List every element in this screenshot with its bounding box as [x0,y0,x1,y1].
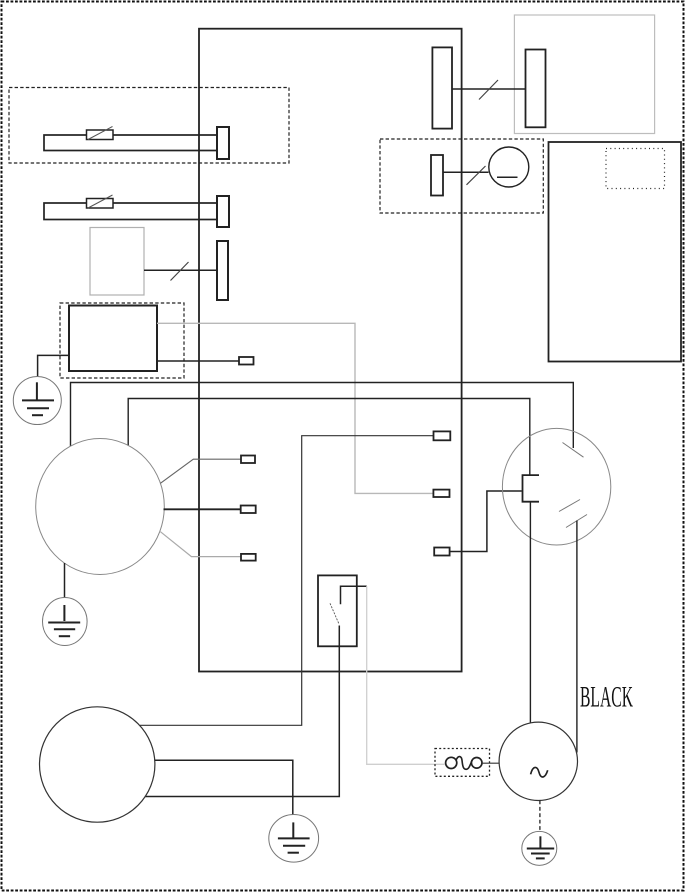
thermal fuse F2 on heater H2 [87,195,114,208]
wire switch S2 to motor M2 [145,626,339,797]
defrost heater H1 body [44,135,217,151]
connector R2 [433,490,449,497]
dotted nameplate box [606,149,665,189]
main harness rectangle outline [199,29,462,672]
connector L1 [241,456,255,464]
defrost heater H2 body [44,203,217,220]
control module box U1 [69,306,157,372]
terminal C [431,155,443,196]
terminal A [432,47,452,128]
connector L2 [241,506,256,514]
gray wire from U1 to connector R2 [157,323,434,493]
connector R3 [434,548,449,556]
dashed enclosure box (defrost heater H1 group) [9,88,289,164]
switch S2 blade [330,603,339,624]
wire net A: motor M1 to compressor switch [71,383,574,449]
switch slash S3 [479,80,498,100]
terminal T3 [217,241,228,300]
terminal B [526,50,546,128]
cabinet panel rectangle (right) [549,142,682,362]
wire net B: motor M1 to compressor bracket [128,399,530,476]
door switch box S2 [318,575,357,646]
connector C0 [239,357,254,365]
wire connector R3 to compressor bracket [450,491,522,552]
ground symbol E4 [522,831,557,865]
dashed wire AC source to ground E4 [539,801,541,832]
overload contact slash (top) [563,443,584,458]
connector R1 [434,431,451,440]
wire U1 to ground [38,355,69,377]
gray cabinet box (top right) [514,15,654,134]
wire thermostat to terminal T3 [144,269,217,271]
wire M1 to connector L2 [164,508,241,510]
dashed box around control module [60,303,184,378]
wire M3 bracket to AC source [529,502,531,724]
wire M3 to AC source (BLACK lead) [576,521,578,753]
ground symbol E3 [269,815,319,863]
thermal fuse F1 on heater H1 [87,127,114,140]
label BLACK [580,681,633,714]
wire terminal C to lamp [443,171,489,173]
wire U1 to connector C0 [157,360,239,362]
wire M1 to connector L1 [160,459,241,483]
start relay bracket inside M3 [523,475,540,502]
pump motor M2 [39,707,154,822]
wire terminal A to terminal B [452,88,526,90]
switch slash S4 [467,166,486,185]
fan motor M1 [36,439,165,575]
fuse F3 symbol [446,757,482,770]
terminal T2 [217,196,229,227]
thermostat box (gray) [90,228,144,296]
compressor motor M3 [502,428,610,545]
wire into switch S2 [341,586,367,604]
light gray wire to fuse F3 [367,586,445,764]
overload contact slashes (bottom) [559,500,587,528]
ground symbol E1 [13,377,61,425]
dotted fuse box [435,749,490,777]
AC power source G1 [499,722,577,800]
dashed lamp enclosure box [380,139,543,213]
lamp L1 [489,147,529,187]
wire fuse F3 to AC source [482,762,499,764]
connector L3 [241,554,256,561]
svg-text:BLACK: BLACK [580,681,633,714]
wire M2 to connector R1 [140,436,434,726]
wire M2 to ground E3 [155,760,293,814]
ground symbol E2 [43,598,88,646]
terminal T1 [217,127,229,159]
wire M1 to connector L3 [160,532,241,557]
switch contact S1 (slash) [171,262,189,281]
wire M1 to ground E2 [64,563,66,598]
